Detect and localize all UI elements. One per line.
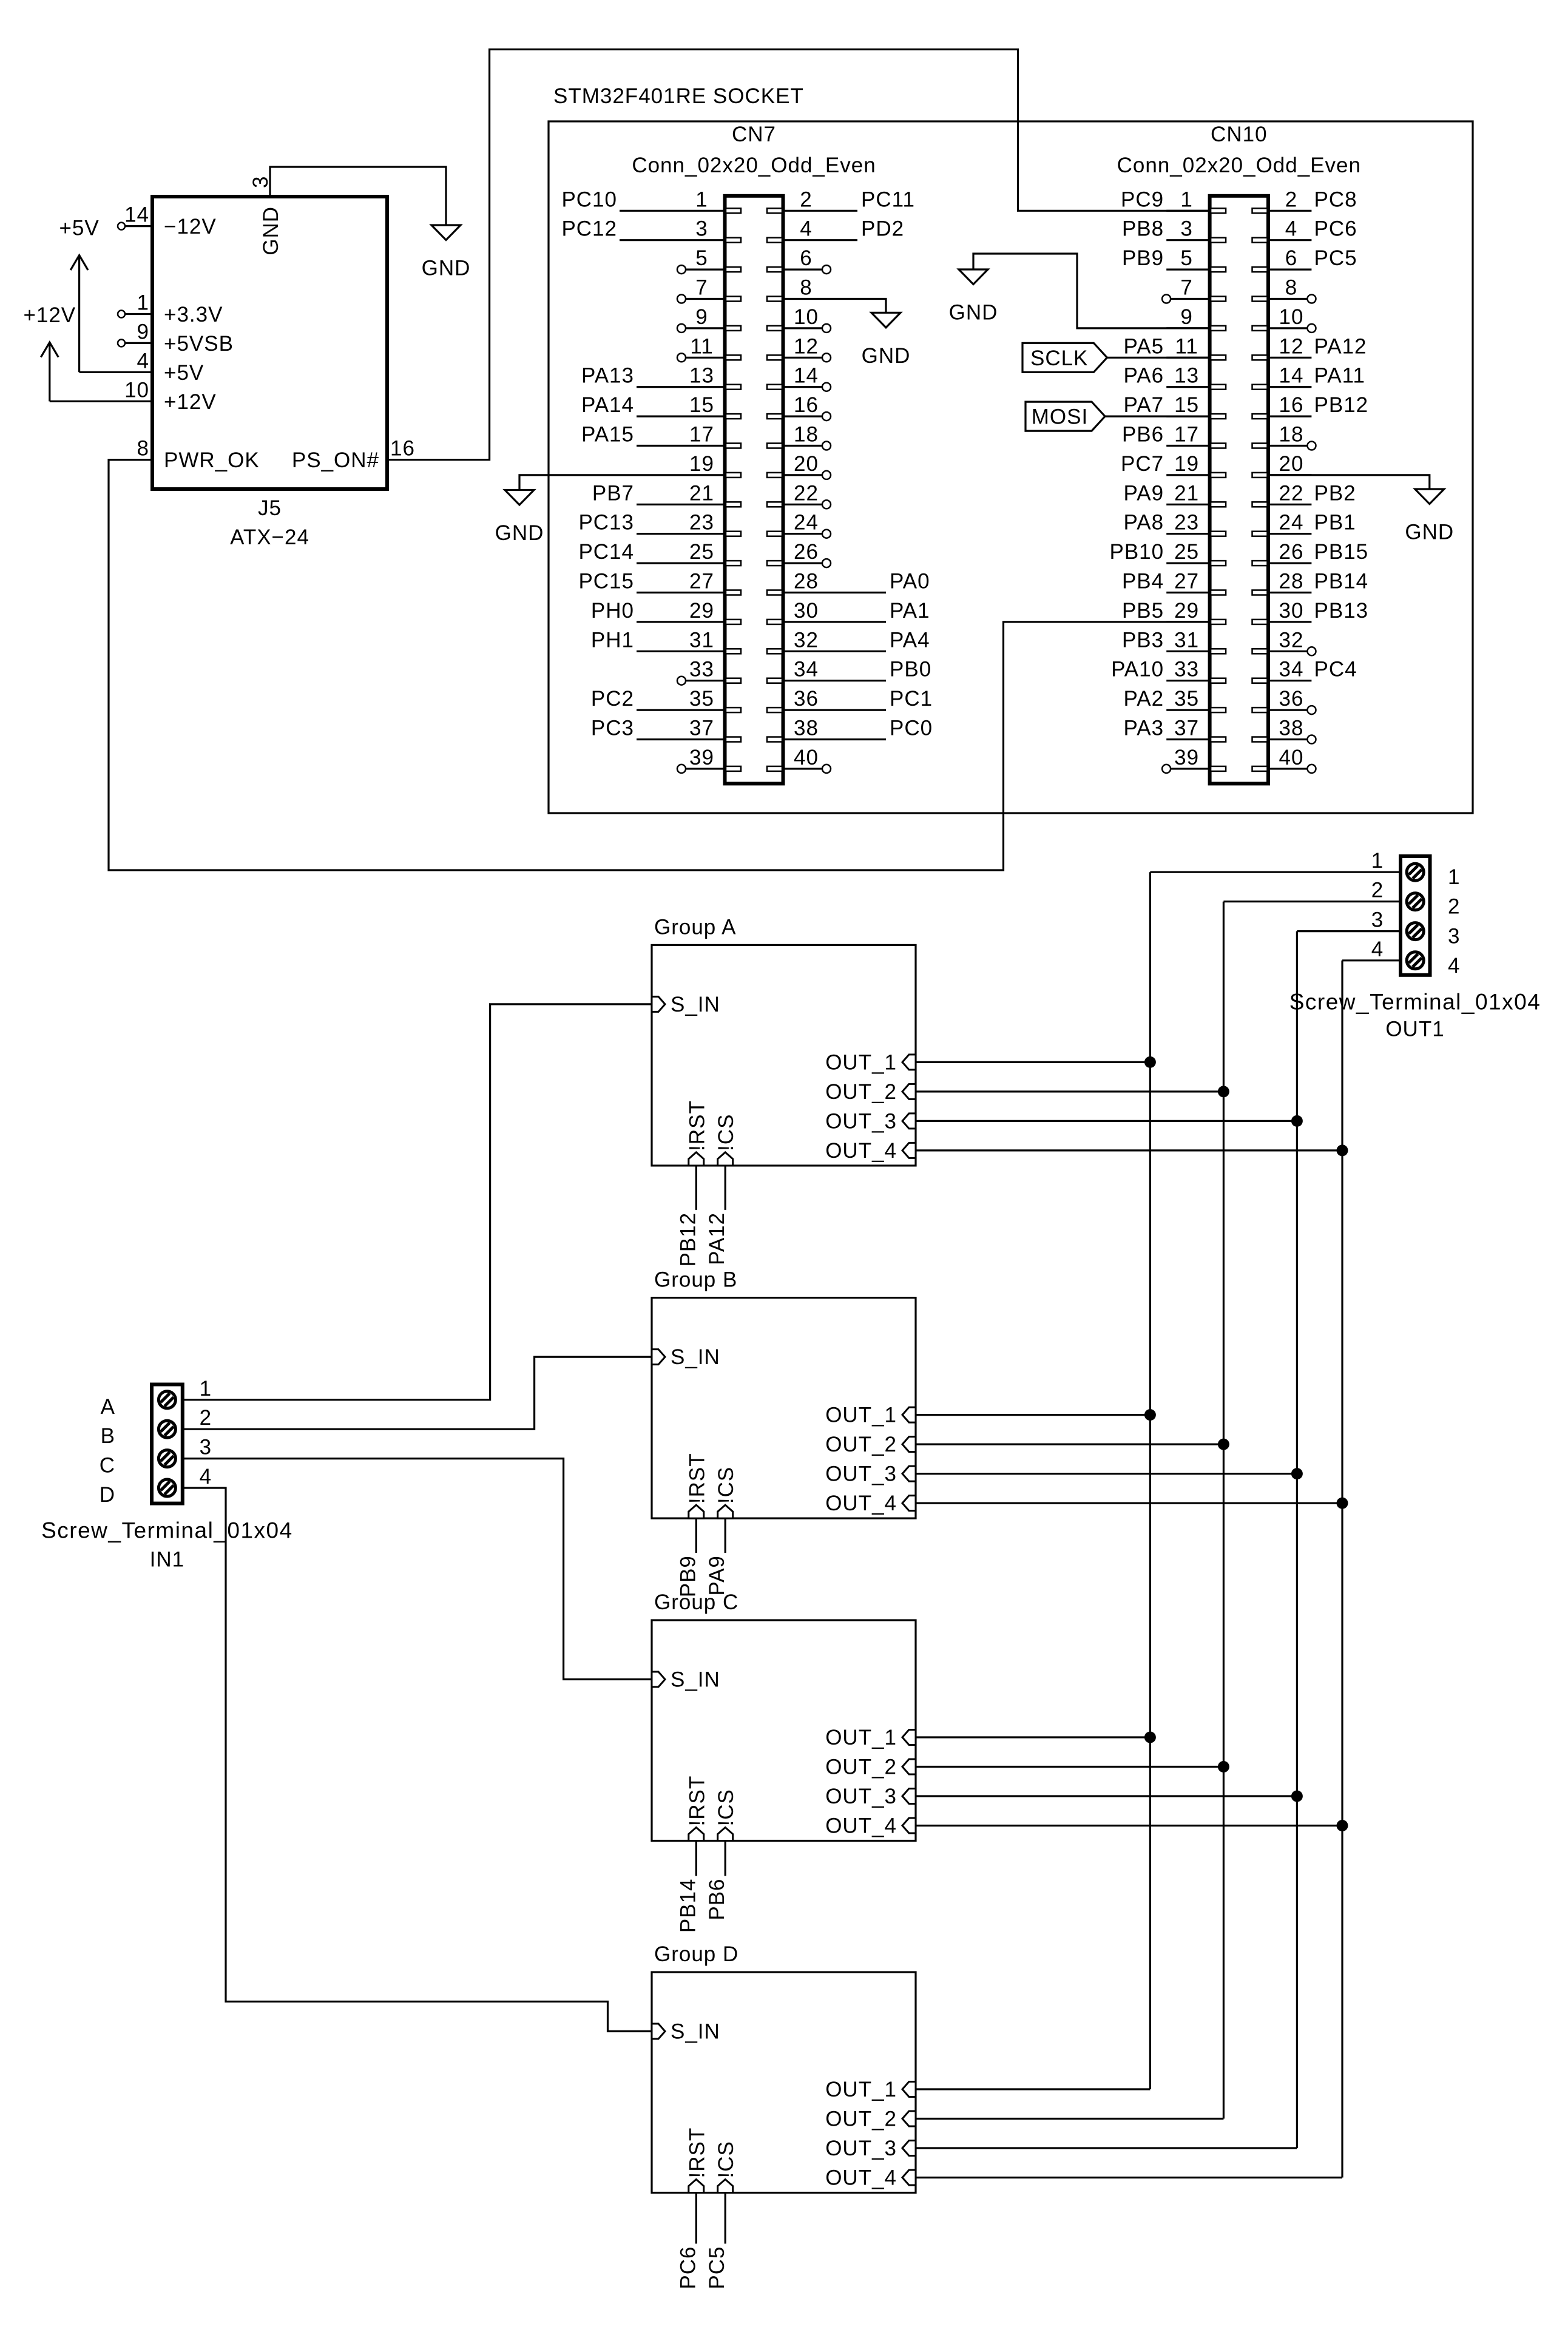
svg-text:36: 36: [794, 687, 819, 711]
svg-text:OUT_2: OUT_2: [825, 1433, 897, 1456]
svg-text:36: 36: [1279, 687, 1304, 711]
svg-text:PB1: PB1: [1314, 511, 1356, 535]
svg-text:20: 20: [1279, 452, 1304, 476]
svg-text:S_IN: S_IN: [671, 1345, 720, 1369]
svg-text:11: 11: [1175, 334, 1198, 358]
svg-text:4: 4: [200, 1465, 212, 1489]
svg-text:33: 33: [1174, 658, 1199, 681]
svg-text:PB12: PB12: [1314, 393, 1369, 417]
svg-text:1: 1: [1448, 865, 1460, 889]
svg-text:31: 31: [1174, 628, 1199, 652]
svg-text:S_IN: S_IN: [671, 2020, 720, 2044]
svg-text:17: 17: [689, 423, 714, 447]
svg-text:Screw_Terminal_01x04: Screw_Terminal_01x04: [1289, 990, 1541, 1015]
svg-text:33: 33: [689, 658, 714, 681]
svg-text:+12V: +12V: [164, 390, 217, 414]
svg-text:Group D: Group D: [654, 1942, 738, 1966]
svg-text:37: 37: [689, 717, 714, 740]
svg-text:27: 27: [1174, 570, 1199, 593]
svg-text:9: 9: [1180, 305, 1192, 329]
svg-text:PB5: PB5: [1122, 599, 1164, 623]
svg-text:7: 7: [695, 276, 708, 300]
svg-text:5: 5: [1180, 246, 1192, 270]
svg-text:GND: GND: [495, 521, 544, 545]
svg-text:OUT_1: OUT_1: [825, 1404, 897, 1427]
svg-text:S_IN: S_IN: [671, 1668, 720, 1692]
svg-text:PA7: PA7: [1124, 393, 1164, 417]
svg-text:23: 23: [1174, 511, 1199, 535]
svg-text:38: 38: [1279, 717, 1304, 740]
svg-text:PB4: PB4: [1122, 570, 1164, 593]
svg-text:1: 1: [200, 1377, 212, 1401]
svg-text:OUT_4: OUT_4: [825, 2166, 897, 2190]
svg-text:17: 17: [1174, 423, 1199, 447]
svg-text:4: 4: [1285, 217, 1297, 241]
svg-text:PC7: PC7: [1121, 452, 1164, 476]
svg-text:28: 28: [1279, 570, 1304, 593]
svg-text:15: 15: [1174, 393, 1199, 417]
svg-text:16: 16: [390, 437, 415, 461]
svg-text:PA6: PA6: [1124, 364, 1164, 388]
svg-text:3: 3: [1448, 925, 1460, 948]
svg-text:32: 32: [1279, 628, 1304, 652]
svg-text:OUT_3: OUT_3: [825, 2137, 897, 2160]
svg-text:PA11: PA11: [1314, 364, 1365, 388]
svg-text:PB9: PB9: [1122, 246, 1164, 270]
svg-text:4: 4: [137, 349, 149, 373]
svg-text:PB6: PB6: [705, 1879, 729, 1921]
svg-text:PC11: PC11: [861, 188, 915, 211]
svg-text:3: 3: [200, 1436, 212, 1459]
svg-text:13: 13: [1174, 364, 1199, 388]
svg-text:4: 4: [800, 217, 812, 241]
svg-text:4: 4: [1371, 938, 1384, 961]
svg-text:14: 14: [794, 364, 819, 388]
svg-text:9: 9: [695, 305, 708, 329]
svg-text:PB14: PB14: [1314, 570, 1369, 593]
svg-text:PC0: PC0: [890, 717, 933, 740]
svg-text:2: 2: [1285, 188, 1297, 211]
svg-text:1: 1: [1371, 849, 1384, 873]
svg-text:C: C: [100, 1454, 115, 1478]
svg-text:15: 15: [689, 393, 714, 417]
svg-text:9: 9: [137, 320, 149, 343]
svg-text:29: 29: [1174, 599, 1199, 623]
svg-text:19: 19: [689, 452, 714, 476]
svg-text:Group B: Group B: [654, 1268, 737, 1292]
svg-text:Screw_Terminal_01x04: Screw_Terminal_01x04: [41, 1518, 293, 1543]
svg-text:OUT_2: OUT_2: [825, 1080, 897, 1104]
svg-text:PA8: PA8: [1124, 511, 1164, 535]
svg-text:PA9: PA9: [705, 1555, 729, 1596]
svg-text:8: 8: [137, 437, 149, 461]
svg-text:30: 30: [794, 599, 819, 623]
svg-text:PB14: PB14: [676, 1879, 700, 1933]
svg-text:3: 3: [1371, 908, 1384, 932]
svg-text:OUT_2: OUT_2: [825, 2107, 897, 2131]
svg-text:!RST: !RST: [685, 1100, 709, 1151]
svg-text:OUT_1: OUT_1: [825, 1050, 897, 1074]
svg-text:PC1: PC1: [890, 687, 933, 711]
svg-text:OUT_3: OUT_3: [825, 1785, 897, 1808]
svg-text:PH0: PH0: [591, 599, 634, 623]
svg-text:OUT_4: OUT_4: [825, 1492, 897, 1515]
svg-text:PB15: PB15: [1314, 540, 1369, 564]
svg-text:PC3: PC3: [591, 717, 634, 740]
svg-text:10: 10: [1279, 305, 1304, 329]
svg-text:19: 19: [1174, 452, 1199, 476]
svg-text:2: 2: [800, 188, 812, 211]
svg-text:!CS: !CS: [714, 2141, 738, 2178]
svg-text:PC15: PC15: [578, 570, 634, 593]
svg-text:16: 16: [1279, 393, 1304, 417]
svg-text:PB13: PB13: [1314, 599, 1369, 623]
svg-text:18: 18: [1279, 423, 1304, 447]
svg-text:OUT_3: OUT_3: [825, 1462, 897, 1486]
svg-text:OUT_2: OUT_2: [825, 1755, 897, 1779]
svg-text:PB12: PB12: [676, 1212, 700, 1267]
svg-text:30: 30: [1279, 599, 1304, 623]
svg-text:PC9: PC9: [1121, 188, 1164, 211]
svg-text:PA1: PA1: [890, 599, 930, 623]
svg-text:14: 14: [1279, 364, 1304, 388]
svg-text:PWR_OK: PWR_OK: [164, 448, 260, 472]
svg-text:25: 25: [1174, 540, 1199, 564]
svg-text:PS_ON#: PS_ON#: [292, 448, 379, 472]
svg-text:3: 3: [695, 217, 708, 241]
svg-text:29: 29: [689, 599, 714, 623]
svg-text:16: 16: [794, 393, 819, 417]
svg-text:!RST: !RST: [685, 1776, 709, 1826]
svg-text:PC10: PC10: [561, 188, 617, 211]
svg-text:35: 35: [689, 687, 714, 711]
svg-text:OUT_4: OUT_4: [825, 1814, 897, 1838]
svg-text:40: 40: [794, 746, 819, 769]
svg-text:18: 18: [794, 423, 819, 447]
svg-text:PC2: PC2: [591, 687, 634, 711]
svg-text:−12V: −12V: [164, 215, 217, 238]
svg-text:1: 1: [1180, 188, 1192, 211]
svg-text:!CS: !CS: [714, 1467, 738, 1504]
svg-text:10: 10: [124, 378, 149, 402]
svg-text:PC14: PC14: [578, 540, 634, 564]
svg-text:STM32F401RE SOCKET: STM32F401RE SOCKET: [553, 84, 804, 108]
svg-text:MOSI: MOSI: [1032, 405, 1088, 429]
svg-text:PH1: PH1: [591, 628, 634, 652]
svg-text:2: 2: [1448, 895, 1460, 919]
svg-text:26: 26: [794, 540, 819, 564]
svg-text:OUT_4: OUT_4: [825, 1139, 897, 1163]
svg-text:39: 39: [1174, 746, 1199, 769]
svg-text:PB2: PB2: [1314, 481, 1356, 505]
svg-text:6: 6: [1285, 246, 1297, 270]
svg-text:CN10: CN10: [1211, 123, 1267, 146]
svg-text:PA5: PA5: [1124, 334, 1164, 358]
svg-text:27: 27: [689, 570, 714, 593]
svg-text:26: 26: [1279, 540, 1304, 564]
svg-text:Conn_02x20_Odd_Even: Conn_02x20_Odd_Even: [632, 154, 876, 177]
svg-text:23: 23: [689, 511, 714, 535]
svg-text:PB8: PB8: [1122, 217, 1164, 241]
svg-text:12: 12: [1279, 334, 1304, 358]
svg-text:1: 1: [695, 188, 708, 211]
svg-text:8: 8: [1285, 276, 1297, 300]
svg-text:PB7: PB7: [592, 481, 634, 505]
svg-text:1: 1: [137, 291, 149, 315]
svg-text:Group A: Group A: [654, 915, 736, 939]
svg-text:11: 11: [690, 334, 713, 358]
svg-text:PA10: PA10: [1111, 658, 1164, 681]
svg-text:ATX−24: ATX−24: [230, 525, 309, 549]
svg-text:PA12: PA12: [705, 1212, 729, 1265]
svg-text:GND: GND: [862, 344, 911, 368]
svg-text:PA0: PA0: [890, 570, 930, 593]
svg-text:GND: GND: [259, 206, 283, 255]
svg-text:8: 8: [800, 276, 812, 300]
svg-text:39: 39: [689, 746, 714, 769]
svg-text:21: 21: [689, 481, 714, 505]
svg-text:PB3: PB3: [1122, 628, 1164, 652]
svg-text:25: 25: [689, 540, 714, 564]
svg-text:+5V: +5V: [164, 361, 204, 385]
svg-text:PC13: PC13: [578, 511, 634, 535]
svg-text:PC5: PC5: [1314, 246, 1357, 270]
svg-text:PC6: PC6: [676, 2246, 700, 2289]
svg-text:!RST: !RST: [685, 2127, 709, 2178]
svg-text:PA3: PA3: [1124, 717, 1164, 740]
svg-text:35: 35: [1174, 687, 1199, 711]
svg-text:40: 40: [1279, 746, 1304, 769]
svg-text:S_IN: S_IN: [671, 993, 720, 1016]
svg-text:12: 12: [794, 334, 819, 358]
svg-text:38: 38: [794, 717, 819, 740]
svg-text:PC5: PC5: [705, 2246, 729, 2289]
svg-text:4: 4: [1448, 954, 1460, 978]
svg-text:SCLK: SCLK: [1030, 346, 1088, 370]
svg-text:OUT1: OUT1: [1385, 1017, 1444, 1041]
svg-text:2: 2: [200, 1406, 212, 1430]
svg-text:J5: J5: [258, 496, 282, 520]
svg-text:GND: GND: [422, 257, 471, 280]
svg-text:PB0: PB0: [890, 658, 931, 681]
svg-text:Conn_02x20_Odd_Even: Conn_02x20_Odd_Even: [1117, 154, 1361, 177]
svg-text:PA15: PA15: [581, 423, 634, 447]
svg-text:PD2: PD2: [861, 217, 904, 241]
svg-text:PC6: PC6: [1314, 217, 1357, 241]
svg-text:!CS: !CS: [714, 1114, 738, 1151]
svg-text:PA4: PA4: [890, 628, 930, 652]
svg-text:28: 28: [794, 570, 819, 593]
svg-text:10: 10: [794, 305, 819, 329]
svg-text:+5VSB: +5VSB: [164, 332, 234, 356]
svg-text:34: 34: [794, 658, 819, 681]
svg-text:14: 14: [124, 203, 149, 227]
svg-text:+12V: +12V: [23, 303, 76, 327]
svg-text:PC12: PC12: [561, 217, 617, 241]
svg-text:D: D: [100, 1483, 115, 1507]
svg-text:3: 3: [1180, 217, 1192, 241]
svg-text:+3.3V: +3.3V: [164, 303, 223, 326]
svg-text:PB10: PB10: [1109, 540, 1164, 564]
svg-text:PA14: PA14: [581, 393, 634, 417]
svg-text:B: B: [101, 1424, 115, 1448]
svg-text:OUT_3: OUT_3: [825, 1109, 897, 1133]
svg-text:OUT_1: OUT_1: [825, 2078, 897, 2101]
svg-text:PB6: PB6: [1122, 423, 1164, 447]
svg-text:PA9: PA9: [1124, 481, 1164, 505]
svg-text:24: 24: [1279, 511, 1304, 535]
svg-text:2: 2: [1371, 879, 1384, 902]
svg-text:37: 37: [1174, 717, 1199, 740]
svg-text:GND: GND: [949, 301, 998, 325]
svg-text:PA12: PA12: [1314, 334, 1367, 358]
svg-text:PC8: PC8: [1314, 188, 1357, 211]
svg-text:OUT_1: OUT_1: [825, 1726, 897, 1749]
svg-text:Group C: Group C: [654, 1590, 738, 1614]
svg-text:5: 5: [695, 246, 708, 270]
svg-text:+5V: +5V: [59, 217, 99, 240]
svg-text:32: 32: [794, 628, 819, 652]
svg-text:21: 21: [1174, 481, 1199, 505]
svg-text:PA13: PA13: [581, 364, 634, 388]
svg-text:34: 34: [1279, 658, 1304, 681]
svg-text:20: 20: [794, 452, 819, 476]
svg-text:22: 22: [794, 481, 819, 505]
svg-text:PA2: PA2: [1124, 687, 1164, 711]
svg-text:22: 22: [1279, 481, 1304, 505]
svg-text:A: A: [101, 1395, 115, 1419]
svg-text:7: 7: [1180, 276, 1192, 300]
svg-text:6: 6: [800, 246, 812, 270]
svg-text:PC4: PC4: [1314, 658, 1357, 681]
svg-text:24: 24: [794, 511, 819, 535]
svg-text:3: 3: [249, 176, 272, 188]
svg-text:!CS: !CS: [714, 1789, 738, 1826]
svg-text:31: 31: [689, 628, 714, 652]
svg-text:!RST: !RST: [685, 1453, 709, 1504]
svg-text:13: 13: [689, 364, 714, 388]
svg-text:CN7: CN7: [732, 123, 776, 146]
svg-text:GND: GND: [1405, 521, 1454, 544]
svg-text:IN1: IN1: [150, 1548, 184, 1572]
